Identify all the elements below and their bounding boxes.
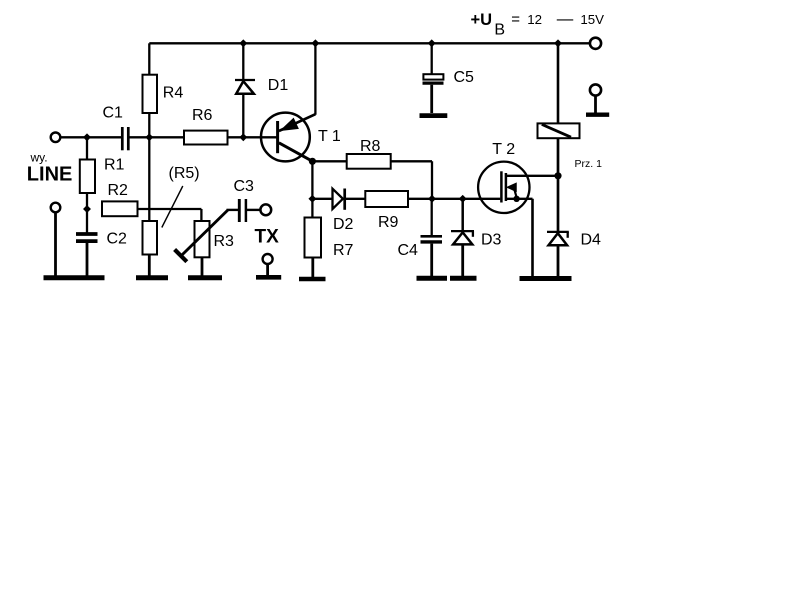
node junction rail/relay [555, 40, 562, 47]
wire bottom terminal to ground [54, 212, 57, 276]
node junction R8/C4 [429, 195, 436, 202]
terminal TX ground side [263, 254, 273, 264]
svg-text:B: B [494, 22, 505, 39]
svg-text:R1: R1 [104, 157, 125, 174]
wire relay down through D4 node [557, 138, 560, 231]
terminal TX output [260, 204, 271, 215]
svg-text:C2: C2 [107, 230, 128, 247]
wire R3 to ground [201, 257, 204, 276]
ground bar under D3 [450, 276, 477, 281]
resistor R7 [311, 199, 313, 218]
relay coil Prz.1 [557, 43, 560, 123]
trimmer end bar of R3 [175, 250, 187, 262]
wire T1 collector to R8 [312, 160, 346, 162]
wire rail down to R4 [148, 43, 150, 74]
ground bar under C4 [417, 276, 448, 281]
resistor R1 [86, 137, 88, 159]
capacitor C5 [431, 43, 433, 74]
svg-text:wy.: wy. [30, 150, 48, 164]
svg-text:D2: D2 [333, 216, 354, 233]
ground bar under R7 [299, 277, 326, 282]
ground bar wide under T2/D4 [520, 276, 572, 281]
wire T1 emitter up to rail [314, 43, 316, 115]
svg-text:R8: R8 [360, 138, 381, 155]
ground bar under R3 [188, 275, 222, 280]
capacitor C4 [431, 199, 433, 235]
wire R5 to ground [148, 255, 151, 277]
node junction rail/C5 [428, 40, 435, 47]
svg-text:12: 12 [527, 12, 542, 27]
wire node to D2 [312, 198, 332, 200]
trimmer wiper diagonal of R3 [181, 210, 228, 256]
ground bar under contact terminal [586, 112, 609, 116]
ground bar under C5 [420, 113, 448, 118]
node junction at R1 top [84, 134, 91, 141]
svg-text:R7: R7 [333, 242, 354, 259]
svg-text:(R5): (R5) [169, 165, 200, 182]
svg-text:R9: R9 [378, 214, 399, 231]
svg-text:C1: C1 [103, 105, 124, 122]
node junction D2/R7 [309, 195, 316, 202]
terminal input bottom [51, 203, 61, 213]
svg-text:—: — [557, 10, 574, 28]
ground bar under R5 [136, 275, 168, 280]
svg-text:=: = [511, 11, 520, 28]
svg-text:C3: C3 [234, 178, 255, 195]
ground bar left shared [44, 275, 105, 280]
resistor R3 (preset) [195, 221, 210, 257]
resistor R9 [365, 191, 408, 207]
node junction R1/R2/C2 [84, 206, 91, 213]
wire R1 to C2 node [86, 193, 88, 233]
svg-text:T 2: T 2 [492, 141, 515, 158]
wire C1 to R6 [130, 136, 185, 138]
terminal input top (wy. LINE) [51, 133, 61, 143]
wire R6 to T1 base [228, 136, 278, 138]
svg-text:15V: 15V [580, 12, 604, 27]
svg-text:D3: D3 [481, 232, 502, 249]
wire R9 to T2 gate [408, 198, 500, 200]
svg-text:T 1: T 1 [318, 128, 341, 145]
wire R4 to node at base line, continuing down to R5 [148, 113, 150, 221]
ground bar under TX terminal [256, 275, 281, 280]
node junction rail/T1 [312, 40, 319, 47]
node junction D3 [459, 195, 466, 202]
capacitor C2 [76, 232, 98, 236]
transistor T2 (MOSFET) [478, 162, 529, 213]
resistor R6 [184, 131, 228, 145]
wire C5 to ground [430, 85, 433, 113]
svg-text:C5: C5 [454, 69, 475, 86]
wire R7 to ground [311, 258, 314, 278]
svg-text:R4: R4 [163, 84, 184, 101]
wire relay contact terminal to ground [594, 96, 597, 113]
capacitor C3 [238, 199, 241, 222]
svg-text:R3: R3 [214, 233, 235, 250]
transistor T1 [261, 113, 310, 162]
capacitor C1 [121, 127, 124, 150]
node junction T1 collector [309, 158, 316, 165]
wire top supply rail +UB [149, 42, 589, 44]
svg-text:C4: C4 [398, 242, 419, 259]
svg-text:R6: R6 [192, 107, 213, 124]
node junction rail/D1 [240, 40, 247, 47]
wire terminal to C1 [61, 136, 122, 138]
wire TX ground terminal to ground [266, 264, 269, 276]
wire D2 to R9 [346, 198, 366, 200]
svg-text:D1: D1 [268, 77, 289, 94]
zener diode D4 [547, 231, 569, 233]
svg-text:Prz. 1: Prz. 1 [575, 158, 603, 170]
node junction C1/R4/R6 [146, 134, 153, 141]
wire R3 wiper to C3 [227, 209, 239, 211]
wire R2 to R3 elbow [138, 208, 202, 210]
wire R8 right elbow down [391, 161, 432, 199]
svg-text:TX: TX [255, 227, 280, 248]
terminal relay contact [590, 84, 601, 95]
wire T1 collector down to D2 node [311, 161, 313, 199]
node junction D1/R6 [240, 134, 247, 141]
wire C3 to TX terminal [247, 209, 260, 211]
zener diode D3 [461, 199, 464, 231]
terminal +UB top right [590, 38, 601, 49]
svg-text:LINE: LINE [27, 164, 73, 186]
svg-text:R2: R2 [108, 182, 129, 199]
wire C4 to ground [430, 244, 433, 276]
svg-text:D4: D4 [581, 232, 602, 249]
resistor R2 [102, 201, 138, 216]
pointer line from (R5) label to R5 [162, 186, 183, 228]
svg-text:+U: +U [471, 11, 493, 29]
diode D1 [242, 43, 244, 79]
resistor R5 [143, 221, 158, 255]
resistor R4 [143, 75, 158, 113]
wire C2 to ground [86, 243, 89, 277]
resistor R8 [347, 154, 391, 169]
node junction T2 drain / relay [554, 172, 561, 179]
diode D2 [333, 189, 343, 209]
